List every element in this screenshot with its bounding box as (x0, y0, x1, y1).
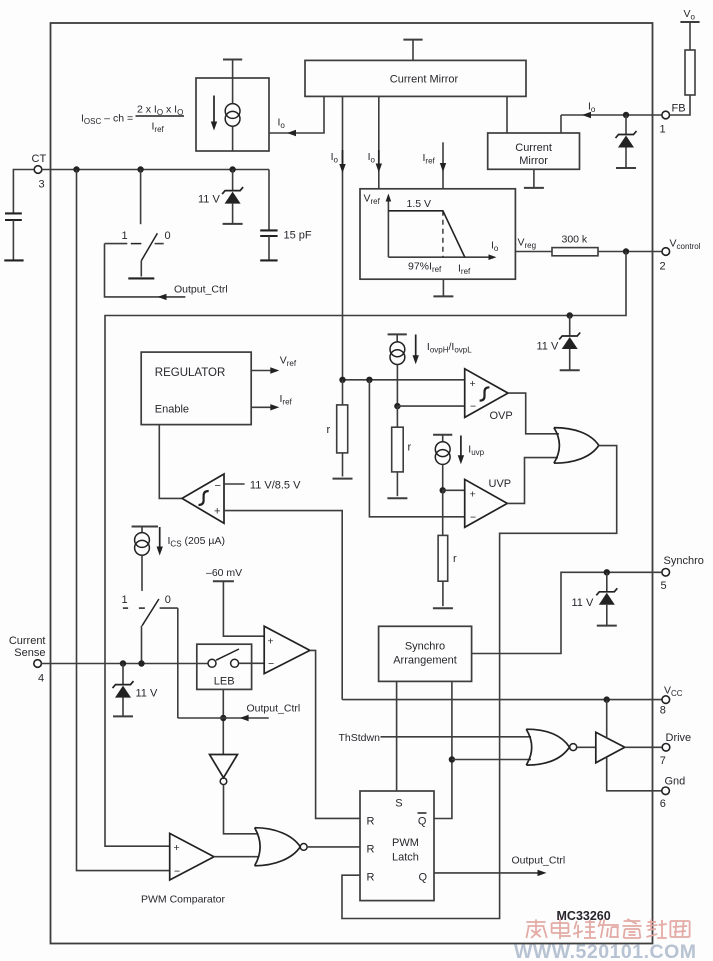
NOR gate U11 (thermal shutdown) (526, 729, 569, 765)
flow arrow I_uvp (460, 436, 462, 457)
node Qbar junction (449, 756, 455, 762)
node zener tap on V_control wire (567, 312, 573, 318)
wire FB to external resistor (670, 95, 691, 115)
node CS switch tap (138, 660, 144, 666)
svg-text:PWM Comparator: PWM Comparator (141, 894, 226, 906)
svg-text:+: + (268, 636, 274, 648)
wire I_ovp to OVP inverting input (396, 365, 398, 407)
wire enable from UVLO comparator (159, 425, 181, 499)
pin FB (662, 111, 670, 119)
wire U12 output to OR gate (508, 393, 559, 434)
inverter U7 (210, 755, 238, 778)
wire SW1 common to ground (140, 261, 142, 277)
watermark chinese text (526, 919, 689, 939)
switch SW1 contact row (105, 243, 128, 245)
svg-text:REGULATOR: REGULATOR (155, 367, 226, 379)
wire Q output Output_Ctrl (434, 872, 538, 874)
hysteresis glyph U5 (199, 491, 209, 505)
svg-text:Latch: Latch (392, 852, 419, 864)
reference bar -60mV (213, 580, 234, 582)
supply bar for I_ovp source (388, 333, 407, 335)
switch SW2 blade (142, 599, 159, 626)
svg-text:r: r (408, 442, 412, 454)
svg-text:0: 0 (165, 594, 171, 606)
wire I_uvp to UVP non-inverting input (442, 464, 444, 490)
wire S input from synchro block (396, 681, 398, 791)
svg-text:Q: Q (418, 816, 427, 828)
svg-text:r: r (327, 424, 331, 436)
svg-text:15 pF: 15 pF (284, 230, 312, 242)
current direction arrow in I1 (213, 96, 215, 123)
flow arrow I_O on graph wire (376, 164, 382, 173)
pin Current Sense (34, 660, 42, 668)
ground below r (OVP upper) (333, 478, 353, 480)
comparator U13 UVP (465, 479, 508, 527)
svg-text:11 V: 11 V (136, 688, 158, 700)
ground below U3 (533, 169, 535, 187)
current source I_uvp (442, 435, 444, 442)
wire I_O from U2 into regulation graph block (378, 96, 380, 188)
comparator U8 PWM (170, 833, 214, 880)
node Output_Ctrl junction (220, 715, 226, 721)
graph Y axis (387, 196, 389, 257)
wire CT to switch SW1 (140, 170, 142, 225)
svg-text:CT: CT (32, 153, 47, 165)
svg-text:S: S (395, 798, 402, 810)
node CT-C (229, 166, 235, 172)
wire I_O from U2 down to OVP divider (342, 96, 344, 379)
node synchro zener tap (604, 569, 610, 575)
wire VCC to driver (606, 700, 608, 739)
resistor R1 300k (552, 248, 598, 256)
svg-text:8: 8 (660, 705, 666, 717)
ground for C2 (260, 259, 277, 261)
svg-text:5: 5 (661, 580, 667, 592)
svg-text:Synchro: Synchro (664, 555, 704, 567)
OR gate U14 (554, 428, 599, 464)
wire to external CT capacitor (13, 170, 34, 214)
zener D1 11V on FB (625, 115, 627, 135)
svg-text:+: + (174, 842, 180, 854)
svg-text:Sense: Sense (14, 647, 45, 659)
wire U8 output to NOR gate (214, 856, 258, 858)
wire VCC rail (342, 699, 662, 701)
wire OVP inverting input (397, 405, 464, 407)
svg-text:1.5 V: 1.5 V (407, 198, 432, 210)
pin Synchro (662, 569, 670, 577)
node CS zener tap (120, 660, 126, 666)
arrow Output_Ctrl (LEB) (240, 715, 249, 721)
node CT-B (137, 166, 143, 172)
comparator U6 (zero current detector) (264, 626, 310, 673)
svg-text:R: R (367, 844, 375, 856)
svg-text:Arrangement: Arrangement (393, 655, 457, 667)
power supply bar for current mirror U2 (403, 39, 422, 41)
hysteresis glyph U12 (480, 387, 490, 400)
oscillator charge current source block (196, 78, 269, 151)
power supply bar for oscillator current source (223, 59, 242, 61)
wire OVP divider top (343, 379, 465, 381)
svg-text:Current: Current (515, 142, 552, 154)
wire driver output to Drive pin (625, 746, 662, 748)
svg-text:Enable: Enable (155, 404, 189, 416)
comparator U12 OVP (465, 369, 508, 418)
zener D2 11V on CT (232, 170, 234, 191)
svg-text:Synchro: Synchro (405, 641, 445, 653)
svg-text:r: r (453, 553, 457, 565)
svg-text:Mirror: Mirror (519, 155, 548, 167)
svg-text:−: − (268, 658, 274, 670)
regulation characteristic block (360, 189, 515, 279)
zener D3 11V on V_control (569, 316, 571, 337)
svg-text:OVP: OVP (490, 410, 513, 422)
wire CT line (42, 169, 269, 171)
wire ThStdwn to U11 upper input (381, 736, 532, 738)
wire U7 output to NOR gate (224, 785, 259, 834)
graph dashed threshold (442, 211, 444, 257)
wire CT ramp to PWM comparator inverting input (77, 170, 170, 871)
current mirror U3 (FB) (488, 133, 580, 169)
wire to U11 lower input (452, 759, 531, 761)
wire SW1 control from Output_Ctrl (105, 244, 186, 297)
resistor r (UVP) (438, 535, 448, 581)
wire from U2 to current mirror U3 (506, 96, 508, 133)
svg-text:1: 1 (122, 594, 128, 606)
arrow Output_Ctrl (Q) (538, 870, 547, 876)
current source I1 symbol (225, 104, 240, 119)
output arrow V_ref (251, 370, 271, 372)
pin VCC (662, 696, 670, 704)
ground below r (UVP) (433, 607, 453, 609)
svg-text:WWW.520101.COM: WWW.520101.COM (514, 941, 697, 961)
graph X axis (388, 256, 490, 258)
svg-text:1: 1 (660, 124, 666, 136)
wire FB line (561, 114, 662, 116)
svg-text:PWM: PWM (392, 837, 419, 849)
wire current sense line (41, 663, 208, 665)
flow arrow I_ovp (415, 335, 417, 357)
svg-text:Current Mirror: Current Mirror (390, 73, 459, 85)
svg-text:Output_Ctrl: Output_Ctrl (512, 855, 566, 867)
svg-text:R: R (367, 816, 375, 828)
svg-text:−: − (215, 480, 221, 492)
wire SW2 control to Output_Ctrl (177, 608, 179, 718)
wire V_control to PWM comparator non-inverting input (105, 252, 626, 847)
LEB block (197, 644, 252, 689)
svg-text:UVP: UVP (489, 478, 512, 490)
wire LEB to comparator U6 (239, 662, 265, 664)
wire U5 inverting input stub (224, 483, 245, 485)
wire LEB control stem (222, 689, 224, 754)
svg-text:–60 mV: –60 mV (206, 567, 242, 579)
wire I_CS to switch SW2 (141, 555, 143, 591)
supply bar V_O (680, 21, 699, 23)
flow arrow I_O on divider wire (339, 164, 345, 173)
wire I_ref into regulation graph block (442, 142, 444, 189)
svg-text:300 k: 300 k (562, 234, 588, 246)
wire Synchro pin to block (472, 572, 662, 653)
svg-text:7: 7 (660, 755, 666, 767)
flow arrow I_ref (440, 163, 446, 172)
comparator U5 UVLO (left pointing) (182, 474, 224, 523)
wire I_uvp to resistor r (442, 490, 444, 535)
svg-text:Q: Q (419, 872, 428, 884)
svg-text:Gnd: Gnd (665, 775, 686, 787)
arrow Output_Ctrl (SW1) (158, 294, 167, 300)
current source I_CS (141, 527, 143, 533)
node divider-r1 top (339, 377, 345, 383)
PWM latch U10 (360, 791, 434, 901)
svg-text:Output_Ctrl: Output_Ctrl (247, 703, 301, 715)
NOR gate U9 (255, 828, 301, 866)
wire R1 to V_control pin (598, 251, 662, 253)
wire UVP non-inverting input (443, 489, 465, 491)
svg-text:11 V: 11 V (198, 194, 220, 206)
wire UVP reference branch (369, 380, 464, 517)
node UVP branch (366, 377, 372, 383)
zener D4 11V on current sense (122, 664, 124, 685)
pin Drive (662, 744, 670, 752)
current mirror U2 (main) (305, 60, 526, 96)
node FB junction (623, 112, 629, 118)
ground below graph block (442, 279, 444, 296)
current source I_ovpH/I_ovpL (396, 334, 398, 342)
node CT-A (73, 166, 79, 172)
wire Qbar to NOR gate U11 (434, 681, 452, 818)
pin V_control (662, 248, 670, 256)
pin CT (34, 166, 42, 174)
wire U13 output to OR gate (507, 458, 558, 504)
wire I_O from current mirror U2 to oscillator block (269, 96, 324, 133)
wire U11 output to driver (577, 746, 596, 748)
svg-text:11 V/8.5 V: 11 V/8.5 V (250, 480, 301, 492)
svg-text:0: 0 (165, 230, 171, 242)
svg-text:MC33260: MC33260 (557, 909, 611, 923)
synchro arrangement block (379, 626, 472, 681)
output arrow I_ref (251, 406, 271, 408)
supply bar for I_uvp source (433, 434, 452, 436)
wire U6 output to latch R1 (310, 650, 360, 818)
svg-text:Current: Current (9, 635, 46, 647)
switch SW2 contact row (123, 607, 128, 609)
svg-text:+: + (470, 489, 476, 501)
svg-text:LEB: LEB (214, 676, 235, 688)
wire U14 output to latch R3 (342, 446, 617, 919)
resistor r (OVP upper) (342, 380, 344, 405)
svg-text:2: 2 (660, 261, 666, 273)
svg-text:−: − (470, 512, 476, 524)
node VCC driver tap (604, 696, 610, 702)
svg-text:11 V: 11 V (572, 597, 594, 609)
resistor R_FB external (685, 50, 695, 95)
wire Output_Ctrl stub (178, 717, 269, 719)
wire graph to R1 (515, 251, 552, 253)
svg-text:+: + (470, 378, 476, 390)
ground for SW1 (128, 277, 154, 279)
svg-text:FB: FB (672, 103, 686, 115)
ground below r (OVP lower) (387, 497, 407, 499)
flow arrow I_CS (159, 527, 161, 548)
resistor r (OVP lower) (396, 406, 398, 427)
node UVP plus junction (440, 487, 446, 493)
capacitor C_T external (5, 212, 22, 214)
pin Gnd (662, 787, 670, 795)
driver buffer U15 (596, 732, 625, 763)
node OVP inv junction (394, 403, 400, 409)
wire U9 output to latch R2 (307, 846, 360, 848)
svg-text:R: R (367, 872, 375, 884)
svg-text:11 V: 11 V (537, 341, 559, 353)
svg-text:Drive: Drive (666, 732, 692, 744)
svg-text:4: 4 (38, 673, 44, 685)
wire resistor to V_O (689, 22, 691, 50)
node V_control junction (623, 248, 629, 254)
svg-text:3: 3 (39, 179, 45, 191)
LEB switch contacts (208, 659, 216, 667)
wire U5 non-inverting input to VCC (224, 511, 342, 700)
svg-text:1: 1 (122, 230, 128, 242)
zener D5 11V on Synchro (606, 572, 608, 592)
wire SW2 common to current sense line (141, 626, 143, 664)
svg-text:+: + (214, 506, 220, 518)
svg-text:−: − (174, 866, 180, 878)
wire -60mV to U6 non-inverting input (223, 581, 264, 636)
supply bar for I_CS source (132, 526, 158, 528)
svg-text:Output_Ctrl: Output_Ctrl (174, 284, 228, 296)
svg-text:−: − (470, 401, 476, 413)
capacitor C2 15pF (268, 170, 270, 231)
svg-text:6: 6 (660, 798, 666, 810)
flow arrow I_O on FB line (582, 112, 591, 118)
graph curve (388, 211, 464, 257)
ground for C_T (4, 259, 23, 261)
regulator block U4 (141, 352, 251, 425)
svg-text:ThStdwn: ThStdwn (339, 732, 381, 744)
switch SW1 blade (141, 233, 157, 260)
wire driver to Gnd pin (607, 757, 662, 790)
